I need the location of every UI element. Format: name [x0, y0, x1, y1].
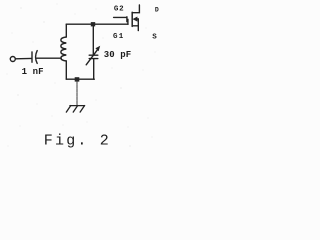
svg-text:G1: G1 [113, 33, 125, 41]
input terminal [10, 57, 15, 62]
inductor L1 bottom lead [65, 61, 67, 79]
variable capacitor CV bottom lead [93, 59, 95, 79]
junction node top [91, 22, 95, 26]
variable capacitor CV arrow shaft [86, 50, 97, 65]
wire input to C1 [15, 57, 31, 59]
MOSFET Q1 gate 2 bar [126, 17, 128, 22]
inductor L1 coil [61, 37, 66, 61]
MOSFET Q1 gate 2 lead [114, 16, 127, 18]
svg-text:1 nF: 1 nF [22, 67, 44, 77]
variable capacitor CV arrow head [95, 46, 100, 52]
wire C1 to inductor tap [37, 57, 62, 59]
MOSFET Q1 channel [131, 12, 133, 26]
capacitor C1 left plate [31, 52, 33, 62]
variable capacitor CV bottom plate [89, 58, 98, 60]
MOSFET Q1 substrate arrow [133, 17, 138, 22]
MOSFET Q1 source vertical [137, 19, 139, 31]
MOSFET Q1 substrate tail [137, 18, 138, 20]
variable capacitor CV top lead [92, 24, 94, 55]
scan speckle noise [7, 4, 156, 147]
junction node bottom [75, 77, 80, 81]
MOSFET Q1 source lead [132, 25, 138, 27]
svg-text:Fig. 2: Fig. 2 [44, 133, 111, 150]
wire to ground [76, 81, 78, 105]
inductor L1 top lead [65, 24, 67, 37]
svg-text:S: S [152, 34, 157, 42]
variable capacitor CV top plate [89, 54, 98, 56]
wire tank top [66, 23, 128, 25]
wire tank bottom [66, 78, 94, 80]
ground stroke 2 [73, 106, 77, 113]
svg-text:30 pF: 30 pF [104, 50, 132, 60]
capacitor C1 right plate [36, 51, 38, 64]
ground stroke 3 [80, 106, 84, 113]
MOSFET Q1 drain lead [132, 5, 139, 13]
svg-text:D: D [155, 7, 159, 14]
ground chassis bar [70, 105, 85, 107]
MOSFET Q1 gate 1 bar [127, 19, 129, 24]
ground stroke 1 [66, 106, 70, 113]
svg-text:G2: G2 [114, 6, 124, 14]
